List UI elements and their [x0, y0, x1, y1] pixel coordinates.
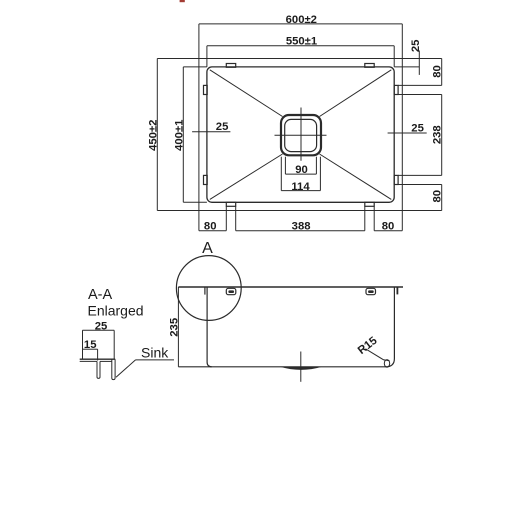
svg-text:25: 25 [410, 40, 422, 53]
detail circle A [176, 256, 241, 321]
ext vline 550 right [393, 46, 395, 67]
svg-text:388: 388 [292, 220, 311, 232]
drain outer square [281, 115, 321, 155]
diagonal bottom-left [210, 154, 283, 199]
dim line bottom 80 right [374, 230, 402, 232]
plan outer rim rect 600x450 [199, 59, 402, 211]
ext vline 25 detail right [113, 330, 115, 358]
dim line 114 [281, 190, 320, 192]
profile outer leg [112, 359, 115, 379]
section right wall with R15 corner [386, 287, 395, 367]
section lip stub left [204, 287, 206, 295]
drain center vline [300, 108, 302, 161]
dim line 400 [182, 67, 184, 202]
ext hline bottom outer right to chain [402, 210, 441, 212]
svg-text:238: 238 [432, 125, 444, 144]
svg-text:80: 80 [432, 190, 444, 203]
ext hline bowl top right to 25 dim [394, 66, 419, 68]
SECTION VIEW [176, 256, 403, 382]
profile inner leg [97, 361, 100, 378]
svg-text:80: 80 [432, 65, 444, 78]
ext hline right clip2 bottom [398, 184, 442, 186]
ext vline 114 left [280, 157, 282, 191]
clip top-left [226, 64, 235, 68]
diagonal bottom-right [320, 154, 392, 199]
ext hline right clip2 top [398, 174, 442, 176]
svg-text:400±1: 400±1 [174, 120, 186, 151]
dim line 25 left rim [192, 131, 230, 133]
section bottom line with 235 ext [178, 366, 386, 368]
section drain center vline [300, 352, 302, 382]
diagonal top-left [210, 70, 283, 117]
ext vline 25 detail left [82, 330, 84, 358]
svg-text:25: 25 [411, 123, 424, 135]
ext vline 90 right [315, 157, 317, 174]
svg-text:90: 90 [295, 164, 308, 176]
dim line right chain 80 top [441, 59, 443, 86]
dim line 90 [285, 173, 316, 175]
dim line 15 detail [83, 348, 98, 350]
svg-text:450±2: 450±2 [147, 120, 159, 151]
dim line right chain 238 [441, 95, 443, 176]
ext vline 600 right [401, 24, 403, 59]
dim line 550 [207, 45, 394, 47]
ext hline bottom outer left to 450 dim [157, 210, 199, 212]
svg-text:Enlarged: Enlarged [88, 303, 144, 319]
ext vline 90 left [284, 157, 286, 174]
dim line right chain 80 bottom [441, 185, 443, 211]
dim line 235 [177, 287, 179, 367]
section clip right outer [366, 288, 376, 294]
sink leader underline [136, 359, 175, 361]
diagonal top-right [320, 70, 392, 117]
section drain bump [280, 367, 322, 370]
ext vline bottom from outer right [401, 211, 403, 231]
ext vline bottom from outer left [198, 211, 200, 231]
ext vline 114 right [319, 157, 321, 191]
section left wall with corner [207, 287, 212, 367]
ext vline bottom clip1 right [235, 207, 237, 231]
profile flange underside mid [100, 360, 112, 362]
ext vline 15 detail [97, 349, 99, 360]
clip right-lower [394, 175, 398, 184]
ext hline top outer to right chain [402, 58, 441, 60]
ext hline top outer to 450 dim [157, 58, 199, 60]
dim line 600 [199, 23, 402, 25]
ext hline right clip1 bottom [398, 94, 442, 96]
dim line 25 right rim [388, 132, 427, 134]
ext hline bowl top left to 400 dim [183, 66, 207, 68]
red artifact top [180, 0, 185, 2]
svg-text:A-A: A-A [88, 287, 113, 303]
section clip right inner [368, 290, 374, 293]
dim line bottom 388 [236, 230, 365, 232]
ext vline bottom clip2 left [364, 207, 366, 231]
clip bottom-right [365, 202, 374, 206]
svg-text:A: A [202, 240, 213, 257]
dim line 25 detail [83, 329, 115, 331]
ext vline 550 left [206, 46, 208, 67]
dim line bottom 80 left [199, 230, 226, 232]
profile flange underside left [80, 360, 97, 362]
clip left-lower [204, 175, 208, 184]
svg-text:25: 25 [216, 121, 229, 133]
section clip left inner [228, 290, 234, 293]
clip bottom-left [226, 202, 235, 206]
sink leader diagonal [116, 360, 136, 377]
drain center hline [275, 134, 327, 136]
R15 leader curl [384, 360, 389, 368]
section clip left outer [226, 288, 236, 294]
svg-text:600±2: 600±2 [286, 14, 317, 26]
dim line 450 [156, 59, 158, 211]
clip right-upper [394, 85, 398, 94]
svg-text:Sink: Sink [141, 345, 169, 361]
svg-text:550±1: 550±1 [286, 36, 317, 48]
svg-text:80: 80 [204, 220, 217, 232]
dim line 25 top right vertical [418, 51, 420, 75]
section lip stub right [396, 287, 398, 294]
section rim line [178, 286, 403, 288]
profile flange top [80, 358, 116, 360]
R15 leader [366, 349, 390, 361]
ext vline bottom clip2 right [373, 207, 375, 231]
svg-text:114: 114 [291, 181, 310, 193]
plan bowl rounded rect 550x400 [207, 67, 394, 202]
svg-text:80: 80 [382, 220, 395, 232]
ext vline bottom clip1 left [225, 207, 227, 231]
clip top-right [365, 64, 374, 68]
ext vline 600 left [198, 24, 200, 59]
drain inner square [285, 119, 317, 151]
svg-text:235: 235 [168, 318, 180, 337]
ext hline bowl bottom left to 400 dim [183, 201, 207, 203]
ext hline right clip1 top [398, 84, 442, 86]
clip left-upper [204, 85, 208, 94]
